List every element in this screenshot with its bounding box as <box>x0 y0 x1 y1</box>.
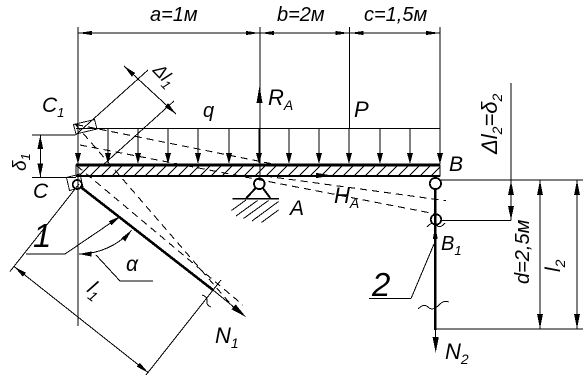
hinge B1 circle (displaced) <box>431 214 441 224</box>
l1 extension line from strut end <box>146 280 221 375</box>
label 2 leader <box>411 244 434 299</box>
svg-text:N2: N2 <box>445 339 469 367</box>
squiggle cut mark on strut 1 <box>202 295 211 307</box>
delta1 top reference line <box>32 134 76 136</box>
svg-text:Δl1: Δl1 <box>146 59 179 92</box>
dim arrow pair at x=349.5 <box>335 31 349 35</box>
dim arrow pair at x=260 <box>246 31 260 35</box>
beam outline <box>76 165 440 176</box>
beam hatching <box>79 165 440 176</box>
svg-text:B1: B1 <box>441 233 462 258</box>
small up arrow below B1 <box>433 227 438 240</box>
dim arrow at x=440 right <box>426 31 440 35</box>
N2 force line <box>435 330 437 348</box>
l2 dimension line x=577 <box>576 180 578 329</box>
HA arrowhead on beam <box>316 173 332 178</box>
svg-text:l2: l2 <box>542 259 568 272</box>
svg-text:HA: HA <box>334 183 359 211</box>
delta1 dimension line <box>39 135 41 178</box>
squiggle cut mark on rod 2 <box>418 301 449 309</box>
l1 dim arrowheads <box>14 267 26 277</box>
delta1 top reference line is load line extension; bottom reference line <box>32 177 76 179</box>
support A ground hatching <box>232 200 279 223</box>
l2 arrows <box>574 181 580 196</box>
N2 arrowhead <box>433 337 439 353</box>
label 2 underline <box>369 298 411 300</box>
hinge C circle <box>73 180 82 189</box>
svg-text:C1: C1 <box>42 94 64 120</box>
beam bottom edge <box>76 175 440 177</box>
svg-text:Δl2=δ2: Δl2=δ2 <box>477 93 505 155</box>
svg-text:q: q <box>203 100 214 122</box>
delta-l1 dimension line <box>124 66 176 114</box>
extension line right x=440 <box>439 27 441 164</box>
extension line left x=78 <box>77 27 79 326</box>
label 1 leader to strut <box>65 221 114 254</box>
svg-text:P: P <box>354 97 369 122</box>
load arrows q <box>75 129 443 165</box>
dashed displaced beam top edge (left) <box>76 125 278 166</box>
leader 1 arrowhead <box>109 216 121 225</box>
alpha arc <box>79 230 132 254</box>
right reference line B1 level <box>442 220 512 222</box>
delta-l1 extension line B <box>103 101 174 165</box>
svg-text:RA: RA <box>268 85 293 113</box>
d dimension line x=540 <box>539 180 541 329</box>
svg-text:A: A <box>288 197 304 220</box>
delta1 arrows <box>37 135 43 149</box>
support A ground line <box>233 198 279 200</box>
RA arrowhead <box>257 86 263 103</box>
svg-text:a=1м: a=1м <box>150 4 198 26</box>
distributed load line y=131 <box>76 128 440 130</box>
bottom reference line <box>436 328 583 330</box>
displaced beam end quad at C <box>67 174 84 191</box>
N1 force line <box>213 290 242 314</box>
strut 1 thick line <box>80 187 213 291</box>
label 1 underline <box>26 253 65 255</box>
svg-text:l1: l1 <box>81 277 107 305</box>
hinge B circle <box>430 178 441 189</box>
l1 dimension line <box>14 267 148 373</box>
support A circle <box>254 179 265 190</box>
squiggle at B1 <box>427 223 445 227</box>
alpha arc arrowheads <box>79 252 92 257</box>
alpha leader <box>96 255 153 281</box>
extension line at A x=260 <box>259 27 261 180</box>
dashed displaced strut lower <box>77 166 243 305</box>
dashed displaced beam line right <box>265 176 446 201</box>
extension line at P x=349.5 <box>349 27 351 129</box>
beam top edge thick <box>76 164 440 167</box>
delta-l2 arrows <box>508 181 514 195</box>
d arrows <box>537 181 543 196</box>
displaced beam end quad at C1 <box>74 120 98 135</box>
svg-text:d=2,5м: d=2,5м <box>512 219 534 284</box>
svg-text:c=1,5м: c=1,5м <box>364 4 427 26</box>
l1 extension line from C <box>10 184 79 272</box>
dashed displaced strut from C1 <box>76 125 235 309</box>
delta-l1 extension line A from C1 <box>76 70 148 135</box>
N1 arrowhead <box>232 304 246 317</box>
dimension line a,b,c y=33 <box>78 32 440 34</box>
dashed displaced beam axis C1-B1 <box>80 145 436 214</box>
svg-text:α: α <box>126 253 139 276</box>
svg-text:δ1: δ1 <box>10 153 33 171</box>
svg-text:N1: N1 <box>215 323 239 351</box>
rod 2 thick line <box>434 189 436 330</box>
support A triangle <box>246 188 270 198</box>
delta-l1 arrowheads <box>124 66 135 77</box>
svg-text:C: C <box>33 180 49 203</box>
delta-l2 dimension line x=511 <box>510 83 512 221</box>
svg-text:b=2м: b=2м <box>277 4 325 26</box>
dim arrow at x=78 left <box>78 31 92 35</box>
svg-text:2: 2 <box>371 266 390 303</box>
right reference line top (from B) <box>441 179 583 181</box>
svg-text:B: B <box>449 153 463 176</box>
